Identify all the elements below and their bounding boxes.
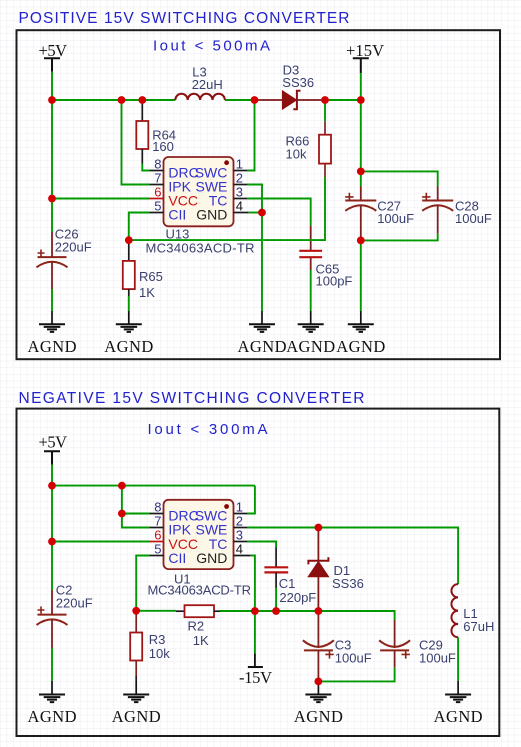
svg-text:GND: GND	[196, 550, 227, 566]
wire +5V stem (neg)	[51, 465, 53, 486]
power symbol -15V	[239, 653, 272, 686]
svg-text:AGND: AGND	[286, 337, 335, 356]
ground AGND C65	[286, 311, 335, 356]
wire pin3 to C1	[248, 542, 276, 548]
wire pin5 to R3	[136, 556, 149, 611]
svg-text:3: 3	[236, 528, 243, 543]
sheet border box 2	[17, 409, 500, 736]
svg-text:6: 6	[154, 528, 161, 543]
wire pin1 to rail	[248, 486, 255, 514]
svg-text:SS36: SS36	[282, 75, 314, 90]
svg-text:AGND: AGND	[294, 707, 343, 726]
IC U13 MC34063ACD-TR	[150, 157, 249, 227]
svg-text:1: 1	[236, 157, 243, 172]
junction VCC row	[48, 195, 56, 203]
svg-text:POSITIVE 15V SWITCHING CONVERT: POSITIVE 15V SWITCHING CONVERTER	[19, 10, 350, 27]
IC U1 MC34063ACD-TR	[150, 500, 251, 569]
wire pin7 from bus	[122, 100, 150, 185]
wire pin8 row	[122, 513, 150, 515]
svg-text:AGND: AGND	[238, 337, 287, 356]
svg-text:AGND: AGND	[434, 707, 483, 726]
junction pin1 branch	[251, 96, 259, 104]
junction C27 top	[357, 168, 365, 176]
svg-text:CII: CII	[168, 550, 186, 566]
svg-text:5: 5	[154, 199, 161, 214]
ground AGND C2	[28, 681, 77, 726]
power symbol +5V	[39, 41, 68, 72]
svg-text:C1: C1	[279, 576, 296, 591]
SECTION2	[17, 390, 500, 736]
ground AGND R3	[112, 681, 161, 726]
capacitor C65 100pF	[299, 226, 322, 270]
svg-text:5: 5	[154, 542, 161, 557]
svg-text:8: 8	[154, 500, 161, 515]
diode D1 SS36 (vertical)	[308, 528, 328, 612]
junction VCC row (neg)	[48, 538, 56, 546]
resistor R66	[319, 100, 331, 177]
svg-text:100uF: 100uF	[455, 211, 492, 226]
capacitor C2 220uF	[37, 590, 68, 648]
capacitor C28 100uF	[422, 186, 453, 234]
svg-text:220pF: 220pF	[279, 590, 316, 605]
junction D1 top	[315, 524, 323, 532]
junction C27 bottom	[357, 237, 365, 245]
svg-text:1: 1	[236, 500, 243, 515]
capacitor C26 220uF	[37, 232, 68, 289]
SECTION1	[17, 10, 501, 359]
wire pin5 to R65	[129, 213, 150, 241]
junction pin8 row	[118, 510, 126, 518]
svg-text:4: 4	[236, 542, 243, 557]
capacitor C27 100uF	[345, 186, 376, 240]
svg-text:100pF: 100pF	[316, 273, 353, 288]
inductor L3	[175, 94, 225, 100]
svg-text:MC34063ACD-TR: MC34063ACD-TR	[146, 240, 255, 255]
wire C2 to ground	[51, 648, 53, 681]
junction D1/C3	[315, 607, 323, 615]
wire pin2 net to ground	[261, 213, 263, 312]
svg-text:100uF: 100uF	[377, 211, 414, 226]
ground AGND C27	[336, 311, 385, 356]
svg-text:GND: GND	[196, 207, 227, 223]
wire pin4 to -15V	[251, 556, 255, 612]
svg-text:220uF: 220uF	[55, 240, 92, 255]
svg-text:R3: R3	[149, 632, 166, 647]
svg-text:+5V: +5V	[39, 432, 68, 451]
junction R3 top	[132, 607, 140, 615]
svg-text:1K: 1K	[193, 633, 209, 648]
svg-text:10k: 10k	[149, 646, 170, 661]
wire C26 to ground	[51, 289, 53, 311]
svg-text:SS36: SS36	[332, 576, 364, 591]
wire top rail (neg)	[52, 485, 255, 487]
power symbol +15V	[346, 41, 384, 73]
junction pin8 branch	[118, 482, 126, 490]
svg-text:22uH: 22uH	[192, 77, 223, 92]
svg-text:MC34063ACD-TR: MC34063ACD-TR	[148, 583, 252, 598]
wire rail R3 to R2	[136, 610, 176, 612]
wire C1 to rail	[275, 588, 277, 611]
wire +15V stem	[360, 73, 362, 100]
wire C2 vertical	[51, 486, 53, 590]
wire R66 to rail	[129, 177, 325, 240]
wire -15V drop	[254, 611, 256, 653]
wire top bus	[52, 99, 175, 101]
wire top rail to C28	[361, 171, 438, 186]
svg-text:AGND: AGND	[28, 337, 77, 356]
svg-text:+5V: +5V	[39, 41, 68, 60]
wire bottom rail C3 to C29	[318, 668, 394, 682]
svg-text:4: 4	[236, 199, 243, 214]
svg-text:AGND: AGND	[104, 337, 153, 356]
wire C26 vertical top	[51, 100, 53, 232]
svg-text:CII: CII	[168, 207, 186, 223]
diode D3 SS36	[255, 91, 326, 109]
ground AGND C3	[294, 681, 343, 725]
wire D3 to +15V	[325, 99, 361, 101]
capacitor C1 220pF	[264, 548, 288, 589]
ground AGND C26	[28, 311, 77, 356]
wire +5V stem	[51, 72, 53, 100]
svg-text:8: 8	[154, 157, 161, 172]
wire rail R2 to C29	[220, 611, 395, 620]
svg-text:220uF: 220uF	[56, 596, 93, 611]
svg-text:AGND: AGND	[112, 707, 161, 726]
svg-text:67uH: 67uH	[463, 619, 494, 634]
junction +15V column	[357, 96, 365, 104]
resistor R65	[123, 240, 135, 296]
junction C3 bottom	[315, 678, 323, 686]
svg-text:AGND: AGND	[28, 707, 77, 726]
ground AGND pin2 net	[238, 311, 287, 356]
wire bottom rail to C28	[361, 234, 438, 241]
wire VCC row (neg)	[52, 541, 150, 543]
svg-text:-15V: -15V	[239, 668, 272, 687]
wire C65 to ground	[310, 270, 312, 311]
svg-text:10k: 10k	[286, 147, 307, 162]
svg-text:AGND: AGND	[336, 337, 385, 356]
svg-text:7: 7	[154, 171, 161, 186]
wire pin3 to C65	[248, 199, 311, 226]
junction R66 branch	[321, 96, 329, 104]
junction R64 branch	[138, 96, 146, 104]
svg-text:1K: 1K	[139, 285, 155, 300]
ground AGND L1	[434, 681, 483, 726]
junction C1 bottom	[272, 607, 280, 615]
wire pin1 to bus	[248, 100, 255, 171]
junction R65 top	[125, 236, 133, 244]
wire pin2 down	[248, 185, 262, 213]
junction pin2/pin4	[258, 209, 266, 217]
wire pin4 to junction	[249, 212, 262, 214]
svg-text:2: 2	[236, 171, 243, 186]
svg-text:R65: R65	[139, 269, 163, 284]
inductor L1 (vertical)	[451, 584, 458, 637]
svg-text:160: 160	[152, 139, 174, 154]
wire +15V to C27	[360, 100, 362, 186]
sheet border box 1	[17, 30, 501, 359]
junction -15V column	[251, 607, 259, 615]
wire C27 to ground	[360, 240, 362, 311]
junction pin7 branch	[118, 96, 126, 104]
wire L1 to ground	[457, 637, 459, 681]
wire pin8/pin7 drop	[122, 486, 150, 528]
svg-text:2: 2	[236, 514, 243, 529]
svg-text:+15V: +15V	[346, 41, 384, 60]
wire L3 to D3	[225, 99, 255, 101]
svg-text:100uF: 100uF	[419, 651, 456, 666]
svg-text:NEGATIVE 15V SWITCHING CONVERT: NEGATIVE 15V SWITCHING CONVERTER	[19, 390, 365, 407]
resistor R2 (horizontal)	[176, 605, 220, 617]
svg-text:3: 3	[236, 185, 243, 200]
wire R64 to pin8	[142, 164, 149, 171]
wire pin2 rail to L1	[248, 528, 458, 585]
svg-text:100uF: 100uF	[335, 651, 372, 666]
svg-text:6: 6	[154, 185, 161, 200]
resistor R3	[130, 611, 142, 681]
capacitor C3 100uF (flipped)	[303, 611, 334, 681]
capacitor C29 100uF (flipped)	[379, 620, 410, 668]
wire VCC row	[52, 198, 150, 200]
junction at +5V / C26	[48, 96, 56, 104]
ground AGND R65	[104, 311, 153, 356]
power symbol +5V (neg)	[39, 432, 68, 465]
resistor R64	[136, 100, 148, 164]
svg-text:R2: R2	[188, 618, 205, 633]
junction +5V column (neg)	[48, 482, 56, 490]
svg-text:7: 7	[154, 514, 161, 529]
wire R65 to ground	[128, 296, 130, 311]
